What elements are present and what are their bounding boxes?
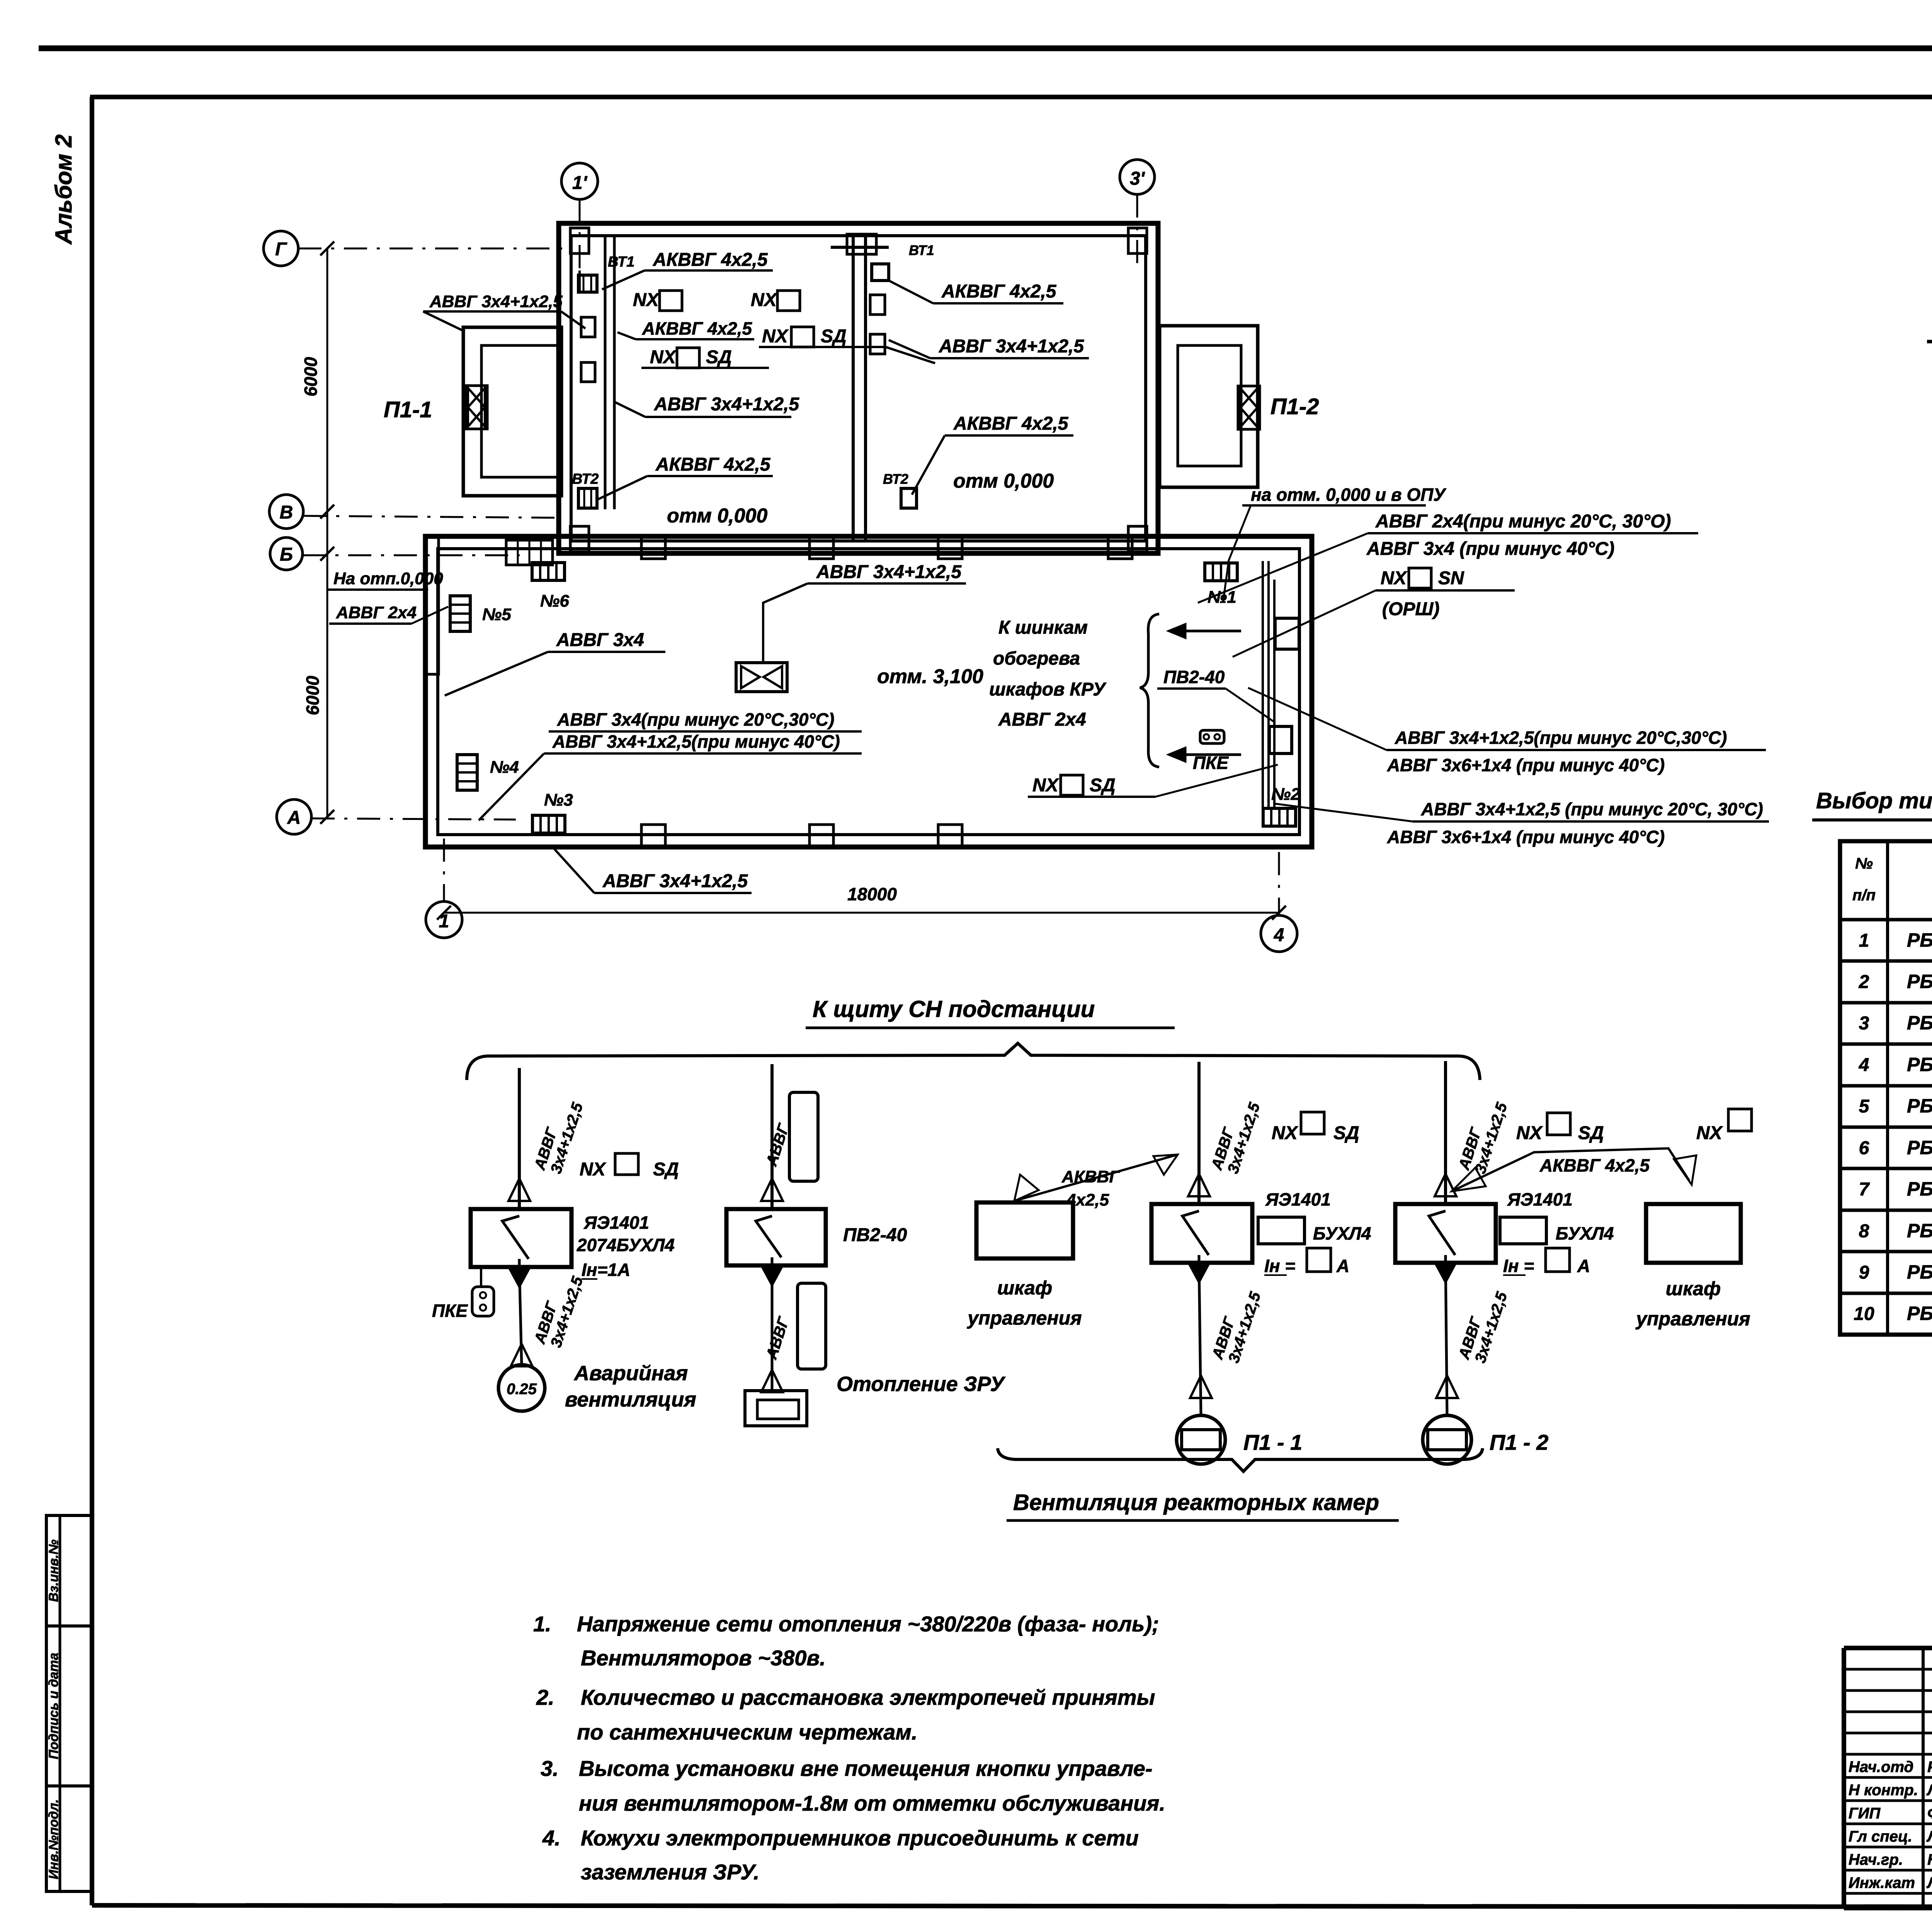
switch box ЯЭ1401 branch1: [471, 1209, 571, 1267]
svg-text:Iн =: Iн =: [1264, 1256, 1295, 1276]
svg-text:ГИП: ГИП: [1849, 1805, 1881, 1822]
svg-text:РБГ-10-1600-0.14: РБГ-10-1600-0.14: [1907, 929, 1932, 951]
svg-text:АКВВГ 4х2,5: АКВВГ 4х2,5: [653, 250, 768, 270]
arrow up branch2 bottom: [761, 1370, 783, 1392]
table2 outer box: [1840, 841, 1932, 1335]
push button ПКЕ (plan): [1200, 730, 1224, 743]
cable АКВВГ 4х2,5 to cabinet2: [1452, 1148, 1689, 1191]
axis line 4 vertical: [1278, 852, 1280, 915]
axis circle В: [269, 495, 303, 529]
axis line 3' vertical: [1136, 194, 1138, 270]
axis circle 1': [561, 163, 598, 199]
main title block outer: [1844, 1646, 1932, 1650]
svg-text:АВВГ 2х4: АВВГ 2х4: [336, 603, 417, 622]
svg-text:4: 4: [1859, 1055, 1869, 1075]
arrow up branch2: [761, 1179, 783, 1201]
svg-text:Б: Б: [280, 544, 293, 565]
svg-text:ЯЭ1401: ЯЭ1401: [1507, 1189, 1573, 1209]
svg-text:ПВ2-40: ПВ2-40: [1163, 667, 1225, 687]
svg-text:10: 10: [1854, 1304, 1874, 1324]
axis circle 1: [426, 901, 462, 938]
svg-text:NX: NX: [762, 326, 789, 347]
svg-text:№: №: [1855, 855, 1873, 872]
svg-text:РБГ-10-1600-0.20: РБГ-10-1600-0.20: [1907, 971, 1932, 992]
chamber П1-1 outer wall: [463, 327, 561, 496]
chamber П1-1 inner wall: [481, 345, 559, 477]
svg-text:ВТ2: ВТ2: [572, 471, 599, 487]
wire branch П1-2: [1444, 1061, 1447, 1204]
svg-text:Лыкасова: Лыкасова: [1926, 1874, 1932, 1891]
svg-text:NX: NX: [751, 290, 778, 310]
table2 vertical lines: [1886, 841, 1889, 1335]
svg-text:NX: NX: [650, 347, 677, 367]
svg-text:отм. 3,100: отм. 3,100: [877, 665, 983, 688]
svg-text:SN: SN: [1438, 568, 1464, 588]
arrow up branch1: [509, 1179, 530, 1201]
switch box П1-1: [1151, 1204, 1252, 1263]
svg-text:№2: №2: [1271, 785, 1300, 804]
svg-text:Вентиляторов ~380в.: Вентиляторов ~380в.: [581, 1646, 826, 1670]
svg-text:АКВВГ 4х2,5: АКВВГ 4х2,5: [941, 281, 1057, 302]
cable АКВВГ 4х2,5 to cabinet1: [1014, 1155, 1178, 1201]
svg-text:NX: NX: [633, 290, 660, 310]
title block label rows: [1844, 1776, 1932, 1779]
svg-text:SД: SД: [653, 1159, 679, 1180]
svg-text:ЯЭ1401: ЯЭ1401: [583, 1213, 649, 1233]
svg-text:Iн=1А: Iн=1А: [582, 1260, 630, 1280]
svg-text:АКВВГ 4х2,5: АКВВГ 4х2,5: [1539, 1155, 1650, 1175]
svg-text:Г: Г: [275, 239, 287, 260]
heating appliance box: [745, 1391, 807, 1426]
lower building wall piers top: [641, 536, 665, 559]
svg-text:АВВГ 3х6+1х4 (при минус 40°С): АВВГ 3х6+1х4 (при минус 40°С): [1387, 827, 1665, 847]
upper building outer wall: [559, 223, 1158, 553]
svg-text:Количество и расстановка элект: Количество и расстановка электропечей пр…: [581, 1685, 1155, 1709]
svg-text:АВВГ 3х4(при минус 20°С,30°С): АВВГ 3х4(при минус 20°С,30°С): [557, 709, 834, 730]
inner frame top line: [90, 95, 1932, 99]
svg-text:РБДГ-10-4000-0.10: РБДГ-10-4000-0.10: [1907, 1261, 1932, 1283]
svg-text:К шинкам: К шинкам: [998, 617, 1088, 638]
svg-text:Кожухи электроприемников присо: Кожухи электроприемников присоединить к …: [581, 1826, 1139, 1850]
heater resistor branch2 lower: [798, 1283, 826, 1369]
wire П1-2 lower: [1446, 1263, 1447, 1415]
heater N4: [457, 755, 477, 790]
svg-text:4х2,5: 4х2,5: [1066, 1190, 1109, 1209]
left room wall chase: [604, 236, 607, 509]
title block left columns: [1922, 1648, 1925, 1908]
svg-text:3.: 3.: [541, 1756, 559, 1781]
svg-text:по сантехническим чертежам.: по сантехническим чертежам.: [577, 1720, 917, 1744]
svg-text:Iн =: Iн =: [1503, 1256, 1534, 1276]
svg-text:П1 - 2: П1 - 2: [1490, 1430, 1548, 1454]
wire branch2 lower: [771, 1265, 774, 1391]
svg-text:Роченский: Роченский: [1927, 1759, 1932, 1776]
svg-text:0.25: 0.25: [507, 1381, 537, 1398]
svg-text:№6: №6: [540, 592, 569, 611]
switch box ПВ2-40: [726, 1209, 826, 1265]
svg-text:Аварийная: Аварийная: [573, 1362, 688, 1385]
svg-text:ЯЭ1401: ЯЭ1401: [1265, 1189, 1331, 1209]
top collector brace: [467, 1043, 1480, 1080]
fan motor П1-1: [1177, 1415, 1225, 1464]
svg-text:АВВГ 3х4 (при минус 40°С): АВВГ 3х4 (при минус 40°С): [1366, 539, 1614, 559]
svg-text:SД: SД: [1090, 775, 1116, 796]
svg-text:Лурье: Лурье: [1926, 1828, 1932, 1845]
svg-text:4.: 4.: [542, 1826, 561, 1850]
svg-text:РБГ-10-2500-0.20: РБГ-10-2500-0.20: [1907, 1137, 1932, 1158]
arrow down П1-2: [1435, 1262, 1456, 1282]
heater ВТ1 left: [578, 275, 597, 292]
svg-text:Инж.кат: Инж.кат: [1849, 1874, 1915, 1891]
heater N1: [1205, 563, 1237, 581]
svg-text:РБДГ-10-4000-0.18: РБДГ-10-4000-0.18: [1907, 1303, 1932, 1324]
svg-text:2.: 2.: [536, 1685, 554, 1709]
axis line А: [311, 818, 516, 820]
axis line Б: [303, 554, 520, 556]
svg-text:Нач.отд: Нач.отд: [1849, 1759, 1913, 1776]
svg-text:управления: управления: [966, 1307, 1082, 1329]
axis line 1 vertical: [443, 838, 445, 901]
svg-text:К щиту СН подстанции: К щиту СН подстанции: [813, 996, 1095, 1022]
svg-text:NX: NX: [1381, 568, 1408, 588]
wire branch1 feeder: [518, 1068, 521, 1209]
arrow up fan 0.25: [511, 1344, 532, 1366]
svg-text:РБДГ-10-2500-0.35: РБДГ-10-2500-0.35: [1907, 1220, 1932, 1242]
fan П1-1 (plan bowtie): [466, 386, 487, 429]
svg-text:NX: NX: [1032, 775, 1060, 796]
svg-text:3': 3': [1130, 168, 1145, 189]
svg-text:АКВВГ 4х2,5: АКВВГ 4х2,5: [642, 318, 752, 338]
svg-text:ВТ1: ВТ1: [608, 254, 634, 270]
svg-text:1': 1': [572, 173, 588, 193]
svg-text:NX: NX: [1272, 1123, 1299, 1143]
svg-text:Напряжение сети отопления ~380: Напряжение сети отопления ~380/220в (фаз…: [577, 1612, 1159, 1636]
upper building bottom wall piers: [570, 526, 589, 552]
svg-text:АВВГ 3х4+1х2,5: АВВГ 3х4+1х2,5: [654, 394, 799, 415]
svg-text:Фомин: Фомин: [1927, 1805, 1932, 1822]
svg-text:вентиляция: вентиляция: [565, 1388, 696, 1411]
svg-text:АВВГ 3х4+1х2,5(при минус 20°С,: АВВГ 3х4+1х2,5(при минус 20°С,30°С): [1395, 728, 1727, 748]
upper building middle wall channel: [852, 236, 855, 541]
svg-text:(ОРШ): (ОРШ): [1382, 599, 1439, 619]
horizontal dimension line 18000: [444, 912, 1279, 914]
svg-text:ВТ2: ВТ2: [883, 471, 908, 487]
svg-text:Альбом 2: Альбом 2: [51, 134, 77, 245]
bottom brace Вентиляция реакторных камер: [998, 1448, 1483, 1471]
svg-text:АКВВГ 4х2,5: АКВВГ 4х2,5: [953, 413, 1069, 434]
upper building inner wall: [571, 236, 1146, 541]
inner frame bottom line: [92, 1905, 1932, 1907]
arrow up П1-1: [1188, 1174, 1210, 1196]
wire to ПКЕ: [480, 1267, 482, 1287]
svg-text:отм 0,000: отм 0,000: [953, 470, 1054, 492]
wire П1-1 lower: [1199, 1263, 1201, 1415]
svg-text:7: 7: [1859, 1179, 1870, 1200]
svg-text:6000: 6000: [301, 357, 321, 396]
sheet top outer border line: [39, 46, 1932, 51]
svg-text:АКВВГ 4х2,5: АКВВГ 4х2,5: [655, 454, 771, 475]
svg-text:БУХЛ4: БУХЛ4: [1313, 1223, 1371, 1243]
svg-text:шкаф: шкаф: [997, 1277, 1052, 1299]
svg-text:РБГ-10-2500-0.14: РБГ-10-2500-0.14: [1907, 1095, 1932, 1117]
svg-text:АВВГ 3х4+1х2,5(при минус 40°С): АВВГ 3х4+1х2,5(при минус 40°С): [552, 731, 840, 752]
svg-text:А: А: [287, 808, 301, 828]
coil device left a: [581, 317, 595, 337]
axis circle Г: [264, 231, 298, 266]
heater ВТ2 left: [578, 488, 597, 508]
svg-text:ВТ1: ВТ1: [909, 242, 934, 258]
axis line В: [303, 516, 560, 518]
svg-text:А: А: [1336, 1256, 1349, 1276]
svg-text:6: 6: [1859, 1138, 1869, 1158]
heater N6: [532, 563, 565, 580]
svg-text:NX: NX: [1516, 1123, 1543, 1143]
svg-text:заземления ЗРУ.: заземления ЗРУ.: [581, 1860, 759, 1884]
svg-text:ПКЕ: ПКЕ: [1193, 753, 1229, 773]
axis line 1' vertical: [579, 199, 581, 270]
svg-text:обогрева: обогрева: [993, 648, 1080, 669]
svg-text:№3: №3: [544, 791, 573, 810]
svg-text:БУХЛ4: БУХЛ4: [1556, 1223, 1614, 1243]
svg-text:6000: 6000: [303, 675, 323, 715]
svg-text:РБГ-10-1600-0.25: РБГ-10-1600-0.25: [1907, 1012, 1932, 1034]
switch box П1-2: [1395, 1204, 1496, 1263]
wire drop 1' into chase: [578, 270, 581, 294]
inner frame left line: [90, 97, 94, 1905]
wire branch2 feeder: [770, 1064, 774, 1209]
left margin inventory boxes: [46, 1515, 92, 1891]
svg-text:ПКЕ: ПКЕ: [432, 1301, 468, 1321]
axis circle 3': [1120, 160, 1155, 194]
coil device left b: [581, 362, 595, 382]
svg-text:АВВГ 3х6+1х4 (при минус 40°С): АВВГ 3х6+1х4 (при минус 40°С): [1387, 755, 1665, 775]
arrow up П1-2: [1435, 1174, 1456, 1196]
svg-text:В: В: [280, 502, 293, 523]
heater N3: [532, 815, 565, 833]
svg-text:SД: SД: [1578, 1123, 1604, 1143]
svg-text:NX: NX: [580, 1159, 607, 1180]
svg-text:8: 8: [1859, 1221, 1869, 1242]
wire branch П1-1: [1197, 1062, 1201, 1204]
svg-text:SД: SД: [821, 326, 847, 347]
svg-text:П1-1: П1-1: [384, 397, 432, 422]
heater N2: [1263, 808, 1296, 826]
right room wall chase devices: [872, 264, 889, 281]
svg-text:Подпись и дата: Подпись и дата: [46, 1653, 61, 1759]
svg-text:ПВ2-40: ПВ2-40: [843, 1225, 907, 1245]
svg-text:п/п: п/п: [1852, 887, 1876, 904]
fan motor 0.25: [498, 1365, 545, 1411]
control cabinet box 2: [1646, 1204, 1741, 1263]
arrow down branch1: [509, 1267, 530, 1287]
svg-text:На отп.0,000: На отп.0,000: [333, 569, 443, 588]
push button ПКЕ: [472, 1287, 494, 1316]
table2 header bottom: [1840, 918, 1932, 922]
arrow up П1-1 fan: [1190, 1376, 1212, 1398]
arrow up П1-2 fan: [1436, 1376, 1458, 1398]
relay БУХЛ4 П1-1: [1258, 1217, 1304, 1244]
chamber П1-2 outer wall: [1160, 326, 1258, 487]
svg-text:АВВГ 3х4+1х2,5: АВВГ 3х4+1х2,5: [429, 292, 563, 311]
svg-text:П1 - 1: П1 - 1: [1243, 1430, 1302, 1454]
upper building top wall piers: [570, 228, 589, 253]
svg-text:1.: 1.: [533, 1612, 551, 1636]
svg-text:3: 3: [1859, 1013, 1869, 1034]
svg-text:Н контр.: Н контр.: [1849, 1782, 1918, 1799]
lower building inner wall: [438, 549, 1299, 835]
svg-text:1: 1: [1859, 930, 1869, 951]
svg-text:Лономосова: Лономосова: [1926, 1782, 1932, 1799]
svg-text:№5: №5: [482, 605, 511, 624]
axis line Г: [298, 248, 566, 250]
svg-text:2074БУХЛ4: 2074БУХЛ4: [577, 1235, 675, 1255]
svg-text:Инв.№подл.: Инв.№подл.: [46, 1799, 61, 1879]
svg-text:Высота установки вне помещения: Высота установки вне помещения кнопки уп…: [579, 1756, 1153, 1781]
svg-text:Отопление ЗРУ: Отопление ЗРУ: [837, 1372, 1005, 1396]
junction box right wall upper: [1275, 618, 1299, 649]
svg-text:4: 4: [1274, 925, 1284, 946]
arrow down branch2: [761, 1265, 783, 1285]
svg-text:ния вентилятором-1.8м от отмет: ния вентилятором-1.8м от отметки обслужи…: [579, 1791, 1165, 1815]
svg-text:РБГ-10-1600-0.35: РБГ-10-1600-0.35: [1907, 1054, 1932, 1075]
svg-text:SД: SД: [706, 347, 732, 367]
chamber П1-2 inner wall: [1178, 345, 1241, 466]
svg-text:9: 9: [1859, 1262, 1869, 1283]
svg-text:АВВГ 3х4: АВВГ 3х4: [556, 630, 644, 650]
control cabinet box 1: [976, 1202, 1073, 1259]
arrow down П1-1: [1188, 1262, 1210, 1282]
heater resistor branch2 top: [789, 1092, 818, 1181]
svg-text:Нач.гр.: Нач.гр.: [1849, 1851, 1903, 1868]
axis circle А: [277, 799, 311, 834]
svg-text:2: 2: [1859, 972, 1869, 992]
axis circle 4: [1261, 915, 1297, 952]
svg-text:АВВГ 2х4: АВВГ 2х4: [998, 709, 1086, 730]
lower building left corridor wall: [425, 536, 439, 674]
svg-text:SД: SД: [1333, 1123, 1359, 1143]
brace and arrows to КРУ cabinets: [1140, 614, 1159, 767]
svg-text:АВВГ 3х4+1х2,5: АВВГ 3х4+1х2,5: [602, 871, 748, 891]
svg-text:на отм. 0,000 и в ОПУ: на отм. 0,000 и в ОПУ: [1251, 485, 1447, 505]
svg-text:5: 5: [1859, 1096, 1870, 1117]
fan motor П1-2: [1423, 1415, 1471, 1464]
vertical dimension line Г-А: [327, 248, 328, 817]
cable riser right wall: [1262, 561, 1264, 808]
svg-text:РБДГ-10-2500-0.25: РБДГ-10-2500-0.25: [1907, 1178, 1932, 1200]
svg-text:отм 0,000: отм 0,000: [667, 505, 767, 527]
junction box right wall lower: [1269, 726, 1292, 753]
fan box (отм 3,100): [736, 663, 787, 692]
svg-text:NX: NX: [1696, 1123, 1723, 1143]
svg-text:Выбор типа ящиков управления п: Выбор типа ящиков управления приточными …: [1816, 788, 1932, 813]
middle wall chase top tick: [831, 246, 889, 249]
svg-text:Вентиляция реакторных камер: Вентиляция реакторных камер: [1013, 1490, 1379, 1515]
axis circle Б: [270, 537, 303, 570]
title block left thin rows: [1844, 1668, 1932, 1671]
svg-text:П1-2: П1-2: [1270, 394, 1319, 419]
svg-text:Гл спец.: Гл спец.: [1849, 1828, 1912, 1845]
svg-text:Вз.инв.№: Вз.инв.№: [46, 1539, 61, 1602]
svg-text:Карлов: Карлов: [1927, 1851, 1932, 1868]
leader to fan box: [763, 583, 808, 663]
svg-text:АВВГ 3х4+1х2,5: АВВГ 3х4+1х2,5: [816, 562, 962, 582]
lower building outer wall: [425, 536, 1312, 847]
heater N5: [450, 596, 470, 631]
relay БУХЛ4 П1-2: [1500, 1217, 1546, 1244]
svg-text:управления: управления: [1635, 1308, 1750, 1330]
svg-text:18000: 18000: [847, 884, 897, 904]
svg-text:шкафов КРУ: шкафов КРУ: [989, 679, 1107, 700]
svg-text:АКВВГ: АКВВГ: [1061, 1167, 1120, 1186]
svg-text:АВВГ 3х4+1х2,5 (при минус 20°С: АВВГ 3х4+1х2,5 (при минус 20°С, 30°С): [1421, 799, 1763, 819]
svg-text:шкаф: шкаф: [1666, 1278, 1721, 1299]
svg-text:№4: №4: [490, 758, 519, 777]
wire branch1 lower: [519, 1267, 522, 1365]
svg-text:А: А: [1577, 1256, 1590, 1276]
entry hatch square: [506, 540, 553, 565]
svg-text:АВВГ 3х4+1х2,5: АВВГ 3х4+1х2,5: [939, 336, 1084, 357]
fan П1-2 (plan bowtie): [1238, 386, 1260, 429]
lower building wall piers bottom: [641, 825, 665, 847]
svg-text:АВВГ 2х4(при минус 20°С, 30°О): АВВГ 2х4(при минус 20°С, 30°О): [1375, 511, 1671, 532]
